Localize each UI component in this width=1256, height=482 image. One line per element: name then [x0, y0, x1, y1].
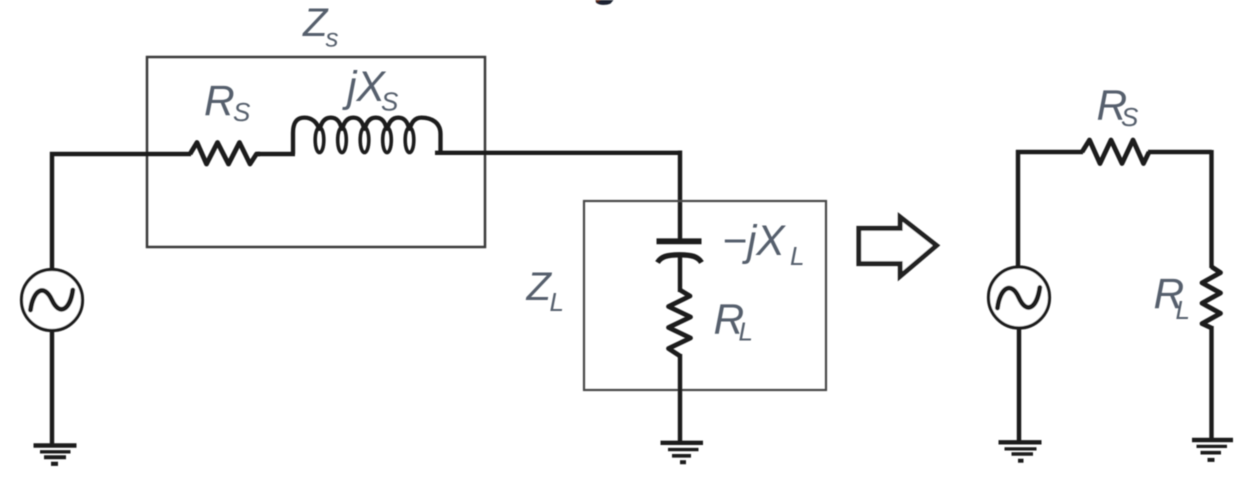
- svg-text:L: L: [739, 317, 753, 347]
- ground (left source): [34, 446, 77, 464]
- svg-text:L: L: [550, 287, 564, 317]
- box ZL (load impedance box): [584, 201, 826, 390]
- wire: RL to ground (right): [1209, 326, 1213, 439]
- cropped text fragment at top edge: [596, 0, 614, 5]
- box Zs (source impedance box): [147, 57, 485, 247]
- wire: RL to ground (through box bottom): [678, 354, 682, 442]
- label RL (right): [1154, 271, 1190, 325]
- label -jXL: [722, 218, 804, 271]
- wire: RS to inductor: [258, 152, 295, 156]
- resistor RL (left, vertical): [669, 290, 691, 356]
- svg-text:L: L: [790, 241, 804, 271]
- svg-text:L: L: [1176, 295, 1190, 325]
- svg-text:−jX: −jX: [722, 218, 786, 265]
- svg-text:S: S: [1121, 102, 1139, 132]
- label RS (left): [204, 78, 251, 127]
- wire: right circuit top-left corner to resistor: [1016, 150, 1083, 268]
- svg-text:R: R: [204, 78, 235, 125]
- svg-text:Z: Z: [526, 265, 553, 309]
- svg-text:s: s: [326, 23, 339, 53]
- capacitor -jXL top plate: [657, 238, 702, 244]
- block arrow: [859, 217, 937, 276]
- capacitor -jXL bottom plate: [658, 255, 702, 263]
- svg-text:jX: jX: [342, 64, 386, 111]
- label jXS: [342, 64, 399, 117]
- label Zs: [302, 1, 339, 53]
- wire: resistor to right corner, down to RL: [1148, 150, 1212, 268]
- resistor RS (left): [190, 143, 260, 165]
- ground (right circuit, load side): [1192, 440, 1233, 460]
- svg-text:S: S: [381, 87, 399, 117]
- AC source V1 (right): [989, 267, 1050, 328]
- label RS (right): [1097, 83, 1140, 133]
- resistor RS (right): [1082, 140, 1149, 164]
- ground (load): [661, 443, 704, 462]
- label ZL: [526, 265, 564, 317]
- label RL (left): [714, 297, 753, 347]
- AC source V1 (left): [22, 270, 83, 331]
- wire: source top to resistor RS: [50, 154, 191, 271]
- ground (right circuit, source side): [999, 442, 1042, 460]
- wire: inductor to top node corner: [435, 151, 682, 241]
- resistor RL (right, vertical): [1202, 267, 1221, 328]
- svg-text:S: S: [233, 97, 251, 127]
- wire: capacitor to resistor RL: [678, 257, 682, 292]
- wire: source bottom to ground: [50, 330, 54, 444]
- inductor jXS: [293, 118, 441, 154]
- wire: right source bottom to ground: [1017, 328, 1022, 443]
